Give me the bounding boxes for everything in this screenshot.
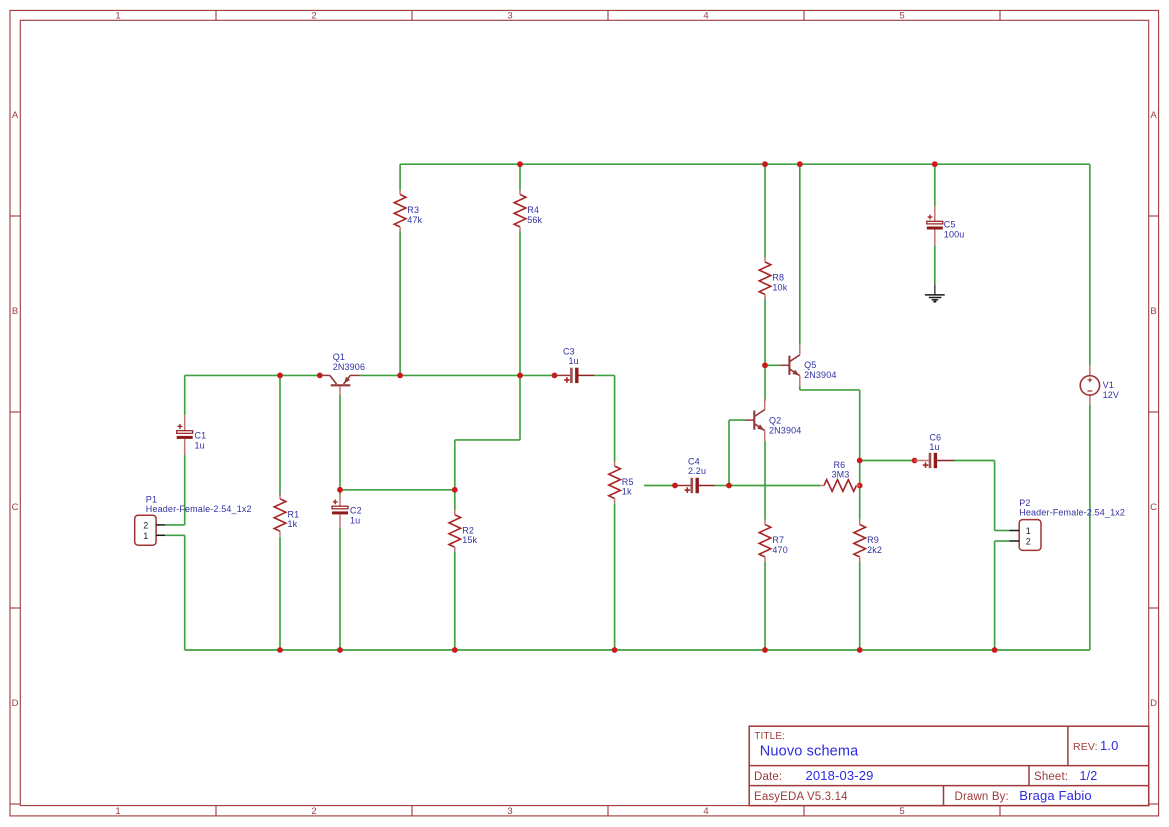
wire Q2 base vertical bbox=[728, 420, 730, 485]
svg-text:C: C bbox=[12, 502, 19, 513]
svg-text:V1: V1 bbox=[1103, 380, 1114, 390]
wire C4 to R6 bbox=[729, 485, 820, 487]
svg-text:Q5: Q5 bbox=[804, 360, 816, 370]
wire C3 down to R5 bbox=[614, 375, 616, 461]
resistor R5 bbox=[609, 466, 621, 498]
wire R4 down step h bbox=[455, 439, 520, 441]
resistor R2 bbox=[449, 515, 461, 547]
svg-text:B: B bbox=[12, 306, 18, 317]
wire Q5 emitter elbow v bbox=[799, 386, 801, 390]
wire C2 bottom bbox=[339, 528, 341, 650]
svg-text:1: 1 bbox=[1026, 526, 1031, 536]
svg-text:C4: C4 bbox=[688, 456, 700, 466]
svg-text:15k: 15k bbox=[462, 535, 477, 545]
wire C6 down to P2 bbox=[994, 461, 996, 531]
transistor Q2 2N3904 bbox=[753, 411, 755, 430]
svg-text:2: 2 bbox=[1026, 537, 1031, 547]
wire R4 top bbox=[519, 164, 521, 190]
wire C6 to R6 link bbox=[859, 461, 861, 486]
wire P1 pin1 bbox=[165, 534, 185, 536]
wire P1 pin1 down bbox=[184, 535, 186, 650]
wire left column to C1 bbox=[184, 375, 186, 415]
svg-text:2k2: 2k2 bbox=[867, 545, 882, 555]
resistor R8 bbox=[759, 262, 771, 294]
svg-text:1u: 1u bbox=[569, 356, 579, 366]
wire V1 top bbox=[1089, 164, 1091, 365]
capacitor C6 bbox=[915, 460, 929, 462]
svg-text:2.2u: 2.2u bbox=[688, 466, 706, 476]
wire C4 right bbox=[715, 485, 730, 487]
svg-text:4: 4 bbox=[703, 806, 708, 817]
svg-text:10k: 10k bbox=[772, 282, 787, 292]
svg-text:Sheet:: Sheet: bbox=[1034, 771, 1068, 783]
svg-text:C: C bbox=[1150, 502, 1157, 513]
svg-text:R3: R3 bbox=[407, 205, 419, 215]
resistor R9 bbox=[854, 525, 866, 557]
junction C6 left bbox=[912, 458, 918, 464]
svg-text:47k: 47k bbox=[407, 215, 422, 225]
wire R2 bottom bbox=[454, 552, 456, 650]
capacitor C2 bbox=[339, 495, 341, 507]
svg-text:C6: C6 bbox=[929, 432, 941, 442]
svg-text:D: D bbox=[1150, 698, 1157, 709]
wire P2 pin2 left bbox=[995, 540, 1010, 542]
resistor R6 bbox=[824, 480, 856, 492]
resistor R1 bbox=[274, 499, 286, 531]
wire R8 top bbox=[764, 164, 766, 257]
wire top power rail bbox=[400, 163, 1090, 165]
capacitor C1 bbox=[184, 415, 186, 431]
svg-text:A: A bbox=[1150, 110, 1157, 121]
wire to P2 pin1 bbox=[995, 530, 1010, 532]
junction Q5 base node bbox=[762, 362, 768, 368]
svg-text:1.0: 1.0 bbox=[1100, 738, 1119, 753]
svg-text:2: 2 bbox=[311, 11, 316, 22]
wire Q5 emitter elbow h bbox=[800, 389, 860, 391]
svg-text:P1: P1 bbox=[146, 494, 157, 504]
wire Q1 emitter to C3 bbox=[360, 374, 555, 376]
svg-text:B: B bbox=[1150, 306, 1156, 317]
svg-text:TITLE:: TITLE: bbox=[754, 731, 785, 742]
svg-text:Date:: Date: bbox=[754, 771, 782, 783]
svg-text:12V: 12V bbox=[1103, 390, 1119, 400]
junction Q1 collector bbox=[317, 373, 323, 379]
svg-text:Header-Female-2.54_1x2: Header-Female-2.54_1x2 bbox=[146, 504, 252, 514]
title block bbox=[749, 726, 1148, 805]
wire R2 top bbox=[454, 490, 456, 510]
wire Q2 collector up bbox=[764, 365, 766, 401]
junction R2 top bbox=[452, 487, 458, 493]
svg-text:Nuovo schema: Nuovo schema bbox=[760, 744, 859, 760]
junction Q5 collector top rail bbox=[797, 161, 803, 167]
svg-text:C5: C5 bbox=[944, 220, 956, 230]
junction C2 top bbox=[337, 487, 343, 493]
wire Q2 emitter down bbox=[764, 441, 766, 520]
connector P2 Header-Female-2.54_1x2 bbox=[1019, 520, 1041, 551]
connector P1 Header-Female-2.54_1x2 bbox=[135, 515, 156, 545]
svg-text:1u: 1u bbox=[195, 440, 205, 450]
svg-text:REV:: REV: bbox=[1073, 741, 1098, 753]
svg-text:R8: R8 bbox=[772, 273, 784, 283]
svg-text:R1: R1 bbox=[288, 509, 300, 519]
svg-text:3M3: 3M3 bbox=[832, 470, 850, 480]
junction C5 top rail bbox=[932, 161, 938, 167]
svg-text:470: 470 bbox=[772, 545, 787, 555]
wire R4 down step v bbox=[519, 375, 521, 440]
svg-text:R7: R7 bbox=[772, 535, 784, 545]
junction rail C2 bbox=[337, 647, 343, 653]
junction rail P2 bbox=[992, 647, 998, 653]
junction rail R5 bbox=[612, 647, 618, 653]
resistor R7 bbox=[759, 525, 771, 557]
svg-text:D: D bbox=[12, 698, 19, 709]
junction rail R2 bbox=[452, 647, 458, 653]
svg-text:R2: R2 bbox=[462, 525, 474, 535]
svg-text:R5: R5 bbox=[622, 477, 634, 487]
resistor R3 bbox=[394, 195, 406, 227]
svg-text:A: A bbox=[12, 110, 19, 121]
svg-text:Header-Female-2.54_1x2: Header-Female-2.54_1x2 bbox=[1019, 507, 1125, 517]
svg-text:1k: 1k bbox=[622, 487, 632, 497]
svg-text:R4: R4 bbox=[527, 205, 539, 215]
transistor Q5 2N3904 bbox=[788, 356, 790, 375]
svg-text:100u: 100u bbox=[944, 229, 965, 239]
svg-text:2N3904: 2N3904 bbox=[769, 425, 801, 435]
wire C6 right bbox=[954, 460, 995, 462]
wire C5 top bbox=[934, 164, 936, 206]
svg-text:C2: C2 bbox=[350, 506, 362, 516]
wire P1 pin2 bbox=[165, 524, 185, 526]
svg-text:2N3904: 2N3904 bbox=[804, 370, 836, 380]
svg-text:P2: P2 bbox=[1019, 498, 1030, 508]
wire bottom rail bbox=[185, 649, 1090, 651]
capacitor C4 bbox=[675, 485, 691, 487]
wire Q2 base horizontal bbox=[729, 419, 745, 421]
svg-text:Q2: Q2 bbox=[769, 416, 781, 426]
wire Q5 collector up bbox=[799, 164, 801, 344]
junction rail R9 bbox=[857, 647, 863, 653]
wire C3 right bbox=[594, 374, 614, 376]
capacitor C3 bbox=[555, 374, 571, 376]
svg-text:Braga Fabio: Braga Fabio bbox=[1019, 788, 1091, 803]
junction C4 right bbox=[726, 483, 732, 489]
junction C4 left bbox=[672, 483, 678, 489]
wire R1 top bbox=[279, 375, 281, 496]
svg-text:2018-03-29: 2018-03-29 bbox=[806, 768, 874, 783]
wire C2 top stub bbox=[339, 490, 341, 495]
svg-text:R9: R9 bbox=[867, 535, 879, 545]
svg-text:C1: C1 bbox=[195, 431, 207, 441]
ground symbol bbox=[934, 284, 936, 294]
junction rail R1 bbox=[277, 647, 283, 653]
wire R5 bottom bbox=[614, 503, 616, 650]
svg-text:4: 4 bbox=[703, 11, 708, 22]
junction C3 left bbox=[552, 373, 558, 379]
junction R8 top rail bbox=[762, 161, 768, 167]
junction R1 top bbox=[277, 373, 283, 379]
wire C5 bottom bbox=[934, 245, 936, 284]
svg-text:1k: 1k bbox=[288, 519, 298, 529]
wire R7 bottom bbox=[764, 562, 766, 650]
wire R9 top bbox=[859, 486, 861, 520]
svg-text:5: 5 bbox=[899, 806, 904, 817]
svg-text:2: 2 bbox=[311, 806, 316, 817]
wire C2 to R2 row bbox=[340, 489, 455, 491]
svg-text:Q1: Q1 bbox=[333, 352, 345, 362]
svg-text:Drawn By:: Drawn By: bbox=[955, 791, 1009, 803]
wire C1 to P1 pin2 elbow bbox=[184, 455, 186, 525]
junction R3 bottom bbox=[397, 373, 403, 379]
wire C6 row left bbox=[860, 460, 915, 462]
svg-text:1u: 1u bbox=[929, 442, 939, 452]
junction C6 row left bbox=[857, 458, 863, 464]
junction R4 bottom bbox=[517, 373, 523, 379]
svg-text:C3: C3 bbox=[563, 346, 575, 356]
wire R1 bottom bbox=[279, 536, 281, 650]
svg-text:1/2: 1/2 bbox=[1080, 769, 1098, 783]
svg-text:3: 3 bbox=[507, 806, 512, 817]
svg-text:3: 3 bbox=[507, 11, 512, 22]
wire Q1 base down bbox=[339, 395, 341, 490]
wire R4 bottom bbox=[519, 232, 521, 376]
wire V1 bottom bbox=[1089, 405, 1091, 650]
junction R6 right bbox=[857, 483, 863, 489]
resistor R4 bbox=[514, 195, 526, 227]
junction rail R7 bbox=[762, 647, 768, 653]
junction R4 top rail bbox=[517, 161, 523, 167]
wire P2 pin2 down bbox=[994, 541, 996, 650]
svg-text:1: 1 bbox=[115, 11, 120, 22]
wire R3 bottom bbox=[399, 232, 401, 376]
svg-text:1: 1 bbox=[143, 531, 148, 541]
capacitor C5 bbox=[934, 206, 936, 221]
svg-text:56k: 56k bbox=[527, 215, 542, 225]
wire down to C6 row bbox=[859, 390, 861, 461]
wire R9 bottom bbox=[859, 562, 861, 650]
wire C4 left stub bbox=[644, 485, 675, 487]
svg-text:5: 5 bbox=[899, 11, 904, 22]
svg-text:2: 2 bbox=[143, 520, 148, 530]
transistor Q1 2N3906 bbox=[331, 384, 351, 386]
svg-text:EasyEDA V5.3.14: EasyEDA V5.3.14 bbox=[754, 791, 848, 803]
wire Q5 base bbox=[765, 364, 780, 366]
wire R3 top bbox=[399, 164, 401, 190]
svg-text:1: 1 bbox=[115, 806, 120, 817]
wire step to R2 bbox=[454, 440, 456, 490]
wire R8 bottom bbox=[764, 299, 766, 365]
svg-text:2N3906: 2N3906 bbox=[333, 362, 365, 372]
wire upper left horizontal bbox=[185, 374, 320, 376]
svg-text:R6: R6 bbox=[834, 460, 846, 470]
svg-text:1u: 1u bbox=[350, 515, 360, 525]
voltage source V1 12V bbox=[1089, 365, 1091, 375]
